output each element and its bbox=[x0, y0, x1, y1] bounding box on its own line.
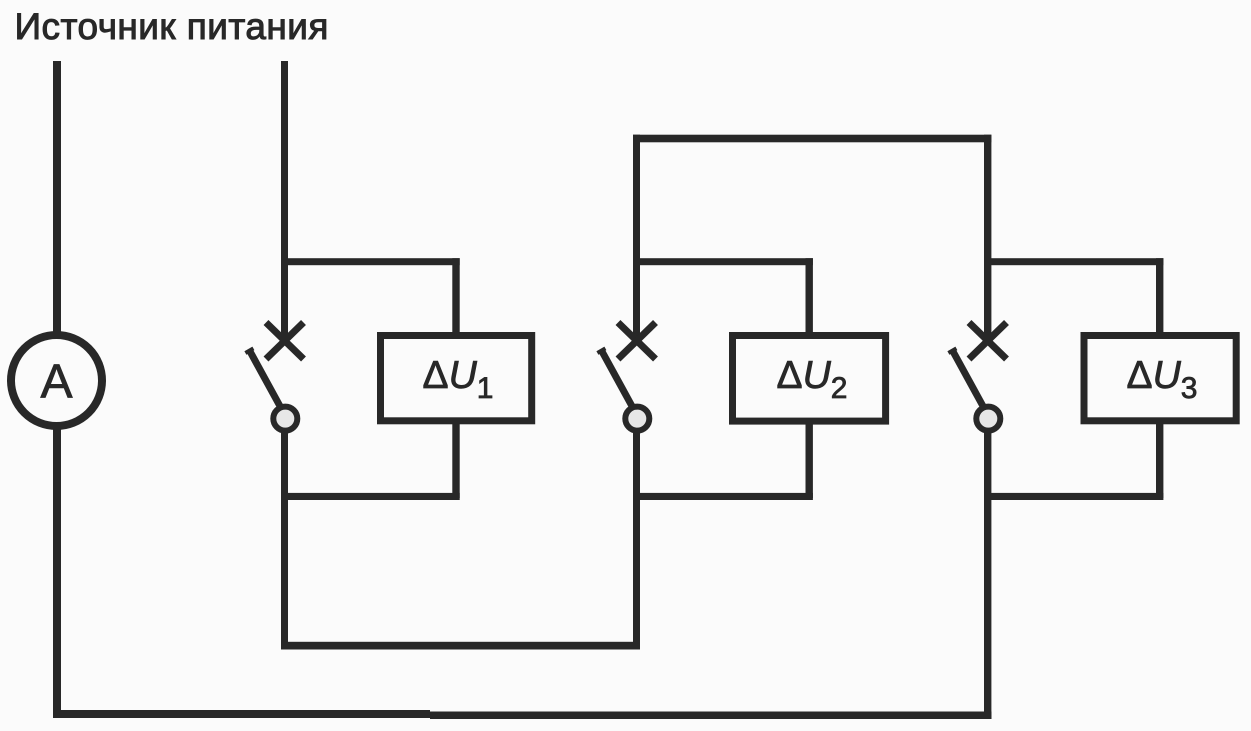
wire: tap from box dU2 bottom bbox=[806, 420, 813, 498]
wire: branch bottom horizontal section2 bbox=[633, 493, 813, 500]
switch Q1 blade bbox=[250, 351, 282, 409]
wire: branch top horizontal section3 bbox=[984, 258, 1163, 265]
wire: top rail between section 2 and section 3 bbox=[633, 135, 991, 143]
switch Q1 X contact bbox=[266, 323, 304, 360]
switch Q2 blade bbox=[602, 351, 634, 409]
wire: tap from box dU1 bottom bbox=[452, 420, 459, 498]
switch Q3 contact circle bbox=[976, 407, 1000, 431]
switch Q3 X contact bbox=[969, 323, 1007, 360]
wire: tap down to box dU3 top bbox=[1156, 258, 1163, 336]
wire: bottom rail right segment bbox=[430, 712, 992, 720]
wire: section2 vertical below switch circle down to jumper line bbox=[633, 430, 640, 650]
box dU1 bbox=[381, 336, 532, 421]
wire: section3 vertical below switch circle down to bottom rail bbox=[984, 430, 991, 719]
wire: section2 vertical from top rail to switch Q2 bbox=[633, 135, 640, 341]
wire: branch top horizontal section1 bbox=[281, 258, 460, 265]
wire: tap from box dU3 bottom bbox=[1156, 420, 1163, 498]
switch Q2 X contact bbox=[618, 323, 656, 360]
wire: branch bottom horizontal section1 bbox=[281, 493, 460, 500]
switch Q2 contact circle bbox=[625, 407, 649, 431]
switch Q1 blade end tick bbox=[245, 348, 253, 353]
wire: source left terminal down to ammeter bbox=[53, 61, 61, 335]
wire: section3 vertical from top rail to switch Q3 bbox=[984, 135, 991, 341]
wire: branch top horizontal section2 bbox=[633, 258, 813, 265]
box dU2 bbox=[733, 336, 886, 422]
switch Q3 blade bbox=[953, 351, 985, 409]
ammeter PA1 circle bbox=[11, 335, 102, 426]
wire: source right terminal down to switch Q1 bbox=[281, 61, 288, 341]
switch Q1 contact circle bbox=[273, 407, 297, 431]
wire: branch bottom horizontal section3 bbox=[984, 493, 1163, 500]
svg-text:А: А bbox=[40, 356, 72, 409]
wire: tap down to box dU2 top bbox=[806, 258, 813, 336]
svg-text:Источник питания: Источник питания bbox=[15, 6, 329, 47]
switch Q2 blade end tick bbox=[597, 348, 605, 353]
wire: jumper line section1 bottom to section2 bottom bbox=[281, 642, 640, 650]
wire: tap down to box dU1 top bbox=[452, 258, 459, 336]
wire: section1 vertical below switch circle down to jumper line bbox=[281, 430, 288, 650]
wire: ammeter bottom down to bottom rail bbox=[53, 426, 61, 718]
switch Q3 blade end tick bbox=[948, 348, 956, 353]
box dU3 bbox=[1084, 336, 1236, 421]
wire: bottom rail left segment bbox=[53, 710, 430, 718]
